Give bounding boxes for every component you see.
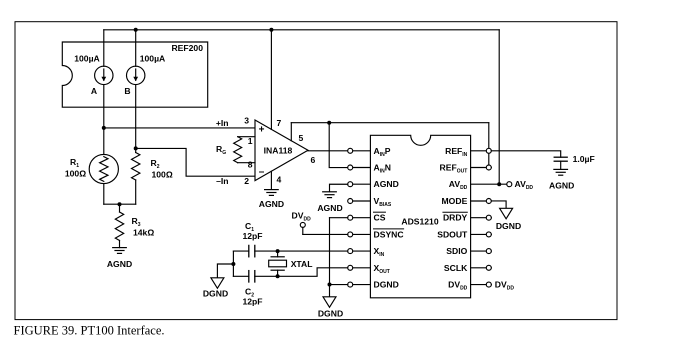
node junction AVdd xyxy=(497,182,501,186)
svg-text:DSYNC: DSYNC xyxy=(374,229,404,239)
ground AGND (cap) xyxy=(554,168,568,170)
svg-text:DGND: DGND xyxy=(496,221,521,231)
capacitor 1.0uF xyxy=(554,156,567,158)
wire bottom node xyxy=(104,203,136,205)
pin VBIAS of U2 xyxy=(353,200,371,202)
wire R3 to ground xyxy=(119,241,121,248)
node junction +In xyxy=(102,126,106,130)
pin SCLK of U2 xyxy=(471,267,492,269)
ground AGND (R3) xyxy=(113,247,127,249)
wire pin4 to ground xyxy=(270,171,272,189)
svg-text:100Ω: 100Ω xyxy=(65,169,86,179)
capacitor C2 xyxy=(248,271,250,282)
svg-text:8: 8 xyxy=(248,160,253,170)
svg-text:12pF: 12pF xyxy=(242,231,262,241)
pin DGND of U2 xyxy=(353,284,371,286)
wire pin5 riser xyxy=(290,123,292,141)
svg-text:14kΩ: 14kΩ xyxy=(133,228,154,238)
svg-text:SDOUT: SDOUT xyxy=(437,229,468,239)
svg-text:AGND: AGND xyxy=(259,199,284,209)
wire CS to bus xyxy=(330,217,348,219)
svg-text:DRDY: DRDY xyxy=(443,213,468,223)
svg-text:A: A xyxy=(91,86,97,96)
svg-text:SDIO: SDIO xyxy=(446,246,467,256)
wire pin7 to rail xyxy=(270,30,272,130)
node junction rail-B xyxy=(134,28,138,32)
svg-text:SCLK: SCLK xyxy=(444,263,468,273)
wire AVDD riser xyxy=(498,30,500,184)
IC REF200 outline xyxy=(62,42,207,107)
svg-text:1.0µF: 1.0µF xyxy=(573,154,595,164)
node junction R3 xyxy=(118,202,122,206)
wire riser current source A xyxy=(103,30,105,67)
svg-text:AGND: AGND xyxy=(549,181,574,191)
current source A xyxy=(95,66,113,84)
wire R2 to node xyxy=(135,180,137,204)
resistor RG xyxy=(238,136,255,138)
pin Xout of U2 xyxy=(353,267,371,269)
wire REFIN to cap xyxy=(491,151,560,157)
pin REFin of U2 xyxy=(471,150,492,152)
terminal DVDD (DSYNC) xyxy=(300,222,305,227)
ground DGND (XTAL) xyxy=(211,278,224,289)
svg-text:FIGURE 39. PT100 Interface.: FIGURE 39. PT100 Interface. xyxy=(14,324,165,338)
svg-text:MODE: MODE xyxy=(442,196,468,206)
svg-text:ADS1210: ADS1210 xyxy=(401,217,438,227)
ground DGND (bus) xyxy=(323,297,336,308)
pin CS of U2 xyxy=(353,217,371,219)
svg-text:2: 2 xyxy=(244,176,249,186)
resistor R2 xyxy=(132,153,140,181)
pin AinP of U2 xyxy=(353,150,371,152)
svg-text:1: 1 xyxy=(248,136,253,146)
pin AinN of U2 xyxy=(353,167,371,169)
terminal AVDD xyxy=(507,182,512,187)
ground DGND (MODE) xyxy=(500,208,513,219)
capacitor C1 xyxy=(248,245,250,256)
svg-text:DGND: DGND xyxy=(203,289,228,299)
svg-text:+In: +In xyxy=(216,118,229,128)
node junction DGND pin xyxy=(328,283,332,287)
wire node to R3 xyxy=(119,204,121,212)
wire op-amp output to AinP xyxy=(308,150,348,152)
ground AGND (U2) xyxy=(323,191,337,193)
node junction DGND stub xyxy=(231,262,235,266)
wire reference net horizontal xyxy=(291,122,489,124)
wire DSYNC tie xyxy=(303,233,348,235)
svg-text:–In: –In xyxy=(216,176,228,186)
wire DGND bus xyxy=(329,218,331,297)
node junction -In xyxy=(134,146,138,150)
svg-text:12pF: 12pF xyxy=(242,297,262,307)
wire R1 to node xyxy=(103,184,105,205)
pin SDOUT of U2 xyxy=(471,233,492,235)
svg-text:6: 6 xyxy=(311,155,316,165)
node junction XTAL top xyxy=(276,249,280,253)
svg-text:100Ω: 100Ω xyxy=(152,170,173,180)
pin DVdd of U2 xyxy=(471,284,492,286)
svg-text:+: + xyxy=(259,124,265,135)
svg-text:XTAL: XTAL xyxy=(291,259,313,269)
pin Xin of U2 xyxy=(353,250,371,252)
crystal XTAL xyxy=(277,251,279,257)
svg-text:4: 4 xyxy=(277,175,282,185)
wire riser current source B xyxy=(135,30,137,67)
wire AVDD rail top xyxy=(104,29,499,31)
svg-text:100µA: 100µA xyxy=(74,54,100,64)
wire +In xyxy=(104,127,255,129)
wire A to R1 xyxy=(103,85,105,155)
wire DGND stub xyxy=(217,264,233,278)
wire left link xyxy=(232,251,234,276)
svg-text:3: 3 xyxy=(244,116,249,126)
wire MODE to DGND xyxy=(491,201,506,208)
svg-text:AGND: AGND xyxy=(374,179,399,189)
resistor R3 xyxy=(115,212,123,241)
svg-text:INA118: INA118 xyxy=(264,145,293,155)
svg-text:DGND: DGND xyxy=(374,280,399,290)
svg-text:AGND: AGND xyxy=(107,259,132,269)
svg-text:7: 7 xyxy=(277,118,282,128)
pin REFout of U2 xyxy=(471,167,492,169)
node junction ref-AinN xyxy=(327,121,331,125)
svg-text:B: B xyxy=(124,86,130,96)
svg-text:5: 5 xyxy=(299,133,304,143)
pin AGND of U2 xyxy=(353,183,371,185)
pin AVdd of U2 xyxy=(471,183,507,185)
node junction XTAL bottom xyxy=(276,274,280,278)
wire -In xyxy=(136,148,255,176)
wire AGND pin stub xyxy=(330,184,348,191)
svg-text:REF200: REF200 xyxy=(171,43,203,53)
wire AinN drop xyxy=(329,123,348,168)
node junction rail-pin7 xyxy=(269,28,273,32)
wire Xout line xyxy=(233,268,347,276)
svg-text:100µA: 100µA xyxy=(140,54,166,64)
ground AGND (pin4) xyxy=(265,189,279,191)
svg-text:–: – xyxy=(259,167,265,178)
pin DSYNC of U2 xyxy=(353,233,371,235)
pin MODE of U2 xyxy=(471,200,492,202)
op-amp U1 INA118 xyxy=(255,120,308,181)
IC ADS1210 outline xyxy=(370,135,470,297)
current source B xyxy=(127,66,145,84)
wire DGND pin to bus xyxy=(330,284,348,286)
resistor R1 PT100 probe xyxy=(89,154,118,183)
wire Xin line xyxy=(233,250,347,252)
svg-text:DGND: DGND xyxy=(318,309,343,319)
wire B to R2 xyxy=(135,85,137,153)
wire REFOUT riser xyxy=(488,123,490,165)
svg-text:AGND: AGND xyxy=(317,203,342,213)
pin SDIO of U2 xyxy=(471,250,492,252)
pin DRDY of U2 xyxy=(471,217,492,219)
svg-text:CS: CS xyxy=(374,213,386,223)
